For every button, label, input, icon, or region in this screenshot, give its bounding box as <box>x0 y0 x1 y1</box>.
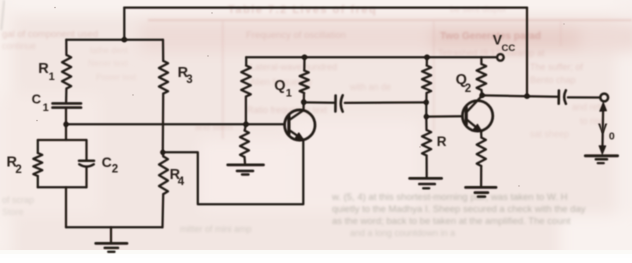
svg-text:C: C <box>102 154 112 170</box>
svg-text:Ratio frequency text: Ratio frequency text <box>247 105 328 115</box>
svg-text:sat sheep: sat sheep <box>530 129 569 139</box>
ground under V0 <box>585 154 617 157</box>
svg-text:be sent dispor: be sent dispor <box>450 4 507 14</box>
wire top rail <box>124 6 527 8</box>
capacitor C4 output <box>557 91 560 104</box>
svg-text:quietly to the Madhya I. Sheep: quietly to the Madhya I. Sheep secured a… <box>332 204 586 215</box>
wire bottom left <box>66 226 162 228</box>
svg-text:gal of component used: gal of component used <box>2 29 98 40</box>
wire base node horizontal <box>66 123 285 125</box>
wire right vertical drop <box>526 8 528 97</box>
terminal output <box>600 94 608 102</box>
svg-text:w. (5, 4) at this shortest-mor: w. (5, 4) at this shortest-morning pair,… <box>331 192 568 203</box>
resistor Q1 upper bias <box>245 57 247 65</box>
ground under Q2 emitter <box>466 186 496 189</box>
node output drop <box>524 93 530 99</box>
svg-text:V: V <box>598 120 608 136</box>
V0 arrow <box>601 104 604 151</box>
node C3 to divider <box>424 100 429 105</box>
resistor R4 <box>162 152 165 156</box>
svg-text:Store: Store <box>2 207 24 217</box>
svg-text:1: 1 <box>49 71 55 83</box>
svg-text:4: 4 <box>178 176 185 188</box>
ground bottom left <box>110 227 112 242</box>
ground under R <box>410 177 442 180</box>
wire Q2 base node <box>425 102 427 116</box>
svg-text:2: 2 <box>15 164 21 176</box>
svg-text:Power text: Power text <box>96 72 137 82</box>
svg-text:as the word; back to be taken: as the word; back to be taken at the amp… <box>332 216 571 227</box>
transistor Q1 <box>285 110 315 140</box>
svg-text:Lateral-wave hundred: Lateral-wave hundred <box>250 62 337 72</box>
paper speckles <box>36 7 564 187</box>
resistor R3 <box>162 40 164 61</box>
node Q1 base divider <box>243 122 249 128</box>
svg-text:1: 1 <box>286 87 292 99</box>
svg-text:Two Generates parad: Two Generates parad <box>440 31 541 42</box>
node Q1 collector <box>301 99 307 105</box>
svg-text:The suffer; of: The suffer; of <box>530 62 583 72</box>
svg-text:tathe dent: tathe dent <box>90 45 128 55</box>
node C1 bottom <box>63 122 68 127</box>
ground under Q1 bias <box>228 164 264 167</box>
svg-text:Bento chap: Bento chap <box>530 75 576 85</box>
svg-text:CC: CC <box>502 43 516 54</box>
resistor RE2 Q2 emitter <box>477 138 486 167</box>
wire Q2 emitter <box>480 132 483 138</box>
resistor RC1 Q1 collector load <box>303 57 305 70</box>
node Q2 base <box>424 114 429 119</box>
resistor RC2 Q2 collector load <box>480 57 482 64</box>
svg-text:2: 2 <box>112 164 118 176</box>
wire R3 to R4 node <box>162 94 165 153</box>
svg-text:Frequency of oscillation: Frequency of oscillation <box>246 30 346 41</box>
wire R1-R3 top <box>66 39 163 41</box>
resistor Q1 lower bias <box>245 124 246 130</box>
svg-text:R: R <box>437 134 447 149</box>
svg-text:C: C <box>32 91 42 106</box>
terminal Vcc <box>497 54 504 61</box>
capacitor C1 <box>53 102 82 105</box>
wire Vcc rail <box>246 56 496 58</box>
svg-text:Table 7.2 Lives of freq: Table 7.2 Lives of freq <box>228 4 377 16</box>
node rail RC1 <box>302 54 308 60</box>
resistor R1 <box>65 40 67 55</box>
svg-text:continue: continue <box>2 41 36 51</box>
node Q2 collector <box>479 93 485 99</box>
svg-text:mitter of mini amp: mitter of mini amp <box>180 224 252 234</box>
wire box to bottom <box>65 187 67 227</box>
node R4 top <box>160 150 165 155</box>
R2 C2 parallel box <box>65 124 67 140</box>
svg-text:Nener text: Nener text <box>88 58 128 68</box>
resistor R2 <box>33 153 42 176</box>
transistor Q2 <box>462 101 492 131</box>
wire feedback vertical <box>123 8 125 40</box>
capacitor C2 <box>85 140 87 160</box>
page edge crease <box>1 0 4 30</box>
svg-text:of scrap: of scrap <box>2 195 34 205</box>
resistor R lower bias <box>425 117 427 130</box>
capacitor C3 coupling <box>334 96 337 112</box>
node rail Q2 bias <box>424 54 430 60</box>
svg-text:and a long countdown in a: and a long countdown in a <box>350 228 455 238</box>
svg-text:1: 1 <box>43 102 49 114</box>
wire R4 node to Q1 emitter <box>163 140 304 204</box>
node feedback top <box>122 37 128 43</box>
wire Q1 collector to C3 <box>304 101 334 104</box>
svg-text:0: 0 <box>609 130 615 142</box>
svg-text:3: 3 <box>186 74 192 86</box>
svg-text:2: 2 <box>465 83 471 95</box>
svg-text:with an de: with an de <box>349 82 391 92</box>
resistor Q2 upper bias <box>426 57 428 65</box>
wire Q2 collector to output <box>482 95 558 96</box>
svg-text:Q: Q <box>274 78 285 94</box>
